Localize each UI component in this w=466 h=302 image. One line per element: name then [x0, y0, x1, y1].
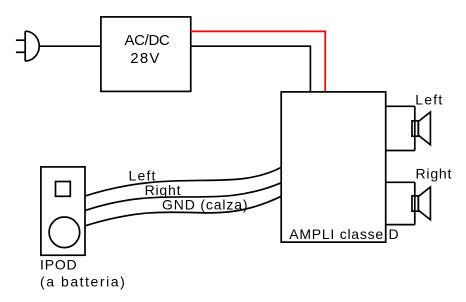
- iPod screen (square): [56, 182, 71, 197]
- svg-text:Left: Left: [415, 91, 443, 107]
- svg-text:28V: 28V: [130, 50, 160, 67]
- wire GND shield iPod to AMPLI: [85, 196, 282, 226]
- wire Right signal iPod to AMPLI: [85, 183, 282, 211]
- iPod click wheel (circle): [49, 217, 80, 248]
- amplifier box U1: [281, 92, 386, 242]
- plug prong upper: [16, 39, 25, 41]
- wire Left signal iPod to AMPLI: [85, 167, 282, 196]
- svg-text:Right: Right: [145, 182, 182, 198]
- svg-text:AMPLI classe D: AMPLI classe D: [289, 226, 399, 242]
- svg-text:IPOD: IPOD: [40, 256, 77, 272]
- wire AMPLI to left speaker (upper stub): [385, 105, 415, 107]
- AC/DC converter box: [101, 17, 191, 92]
- wire plug to AC/DC converter: [39, 45, 100, 47]
- iPod box: [41, 167, 85, 255]
- wire +28V (red) AC/DC to AMPLI: [190, 31, 325, 91]
- AC mains plug P1: [16, 31, 39, 61]
- wire AMPLI to left speaker (lower stub): [385, 150, 415, 152]
- svg-text:GND (calza): GND (calza): [162, 197, 248, 213]
- wire AMPLI to right speaker (lower stub): [385, 224, 415, 226]
- plug prong lower: [16, 51, 25, 53]
- svg-text:AC/DC: AC/DC: [125, 32, 170, 49]
- right speaker LS2: [412, 182, 430, 224]
- svg-text:(a batteria): (a batteria): [40, 273, 126, 289]
- left speaker LS1: [412, 106, 430, 150]
- wire AMPLI to right speaker (upper stub): [385, 181, 415, 183]
- svg-text:Right: Right: [416, 166, 453, 182]
- wire 0V (black) AC/DC to AMPLI: [190, 46, 310, 91]
